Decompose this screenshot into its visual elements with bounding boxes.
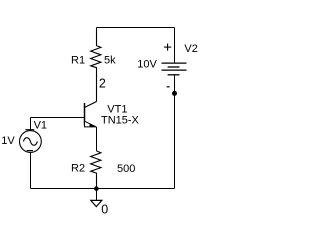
wire bottom horizontal <box>31 188 175 190</box>
svg-text:V2: V2 <box>184 43 197 55</box>
ground <box>91 189 102 207</box>
svg-text:0: 0 <box>101 203 108 217</box>
transistor VT1 <box>85 102 97 127</box>
resistor R1 <box>91 28 101 102</box>
svg-text:10V: 10V <box>137 58 157 70</box>
svg-text:TN15-X: TN15-X <box>101 114 140 126</box>
junction dot battery negative node <box>172 91 177 96</box>
svg-text:5k: 5k <box>104 55 116 67</box>
svg-text:1V: 1V <box>1 135 15 147</box>
wire base horizontal <box>31 117 85 119</box>
svg-text:500: 500 <box>117 163 135 175</box>
wire top horizontal <box>97 27 175 29</box>
wire right bottom vertical <box>174 74 176 188</box>
svg-text:R2: R2 <box>71 163 85 175</box>
svg-text:R1: R1 <box>71 55 85 67</box>
resistor R2 <box>91 151 101 189</box>
wire right top vertical <box>174 28 176 63</box>
wire V1 bottom vertical <box>30 152 32 188</box>
wire emitter vertical <box>96 127 98 151</box>
battery V2 <box>162 44 187 87</box>
junction dot R2 bottom node <box>94 186 99 191</box>
svg-text:V1: V1 <box>34 119 47 131</box>
source V1 <box>20 118 42 153</box>
svg-text:2: 2 <box>99 77 106 91</box>
